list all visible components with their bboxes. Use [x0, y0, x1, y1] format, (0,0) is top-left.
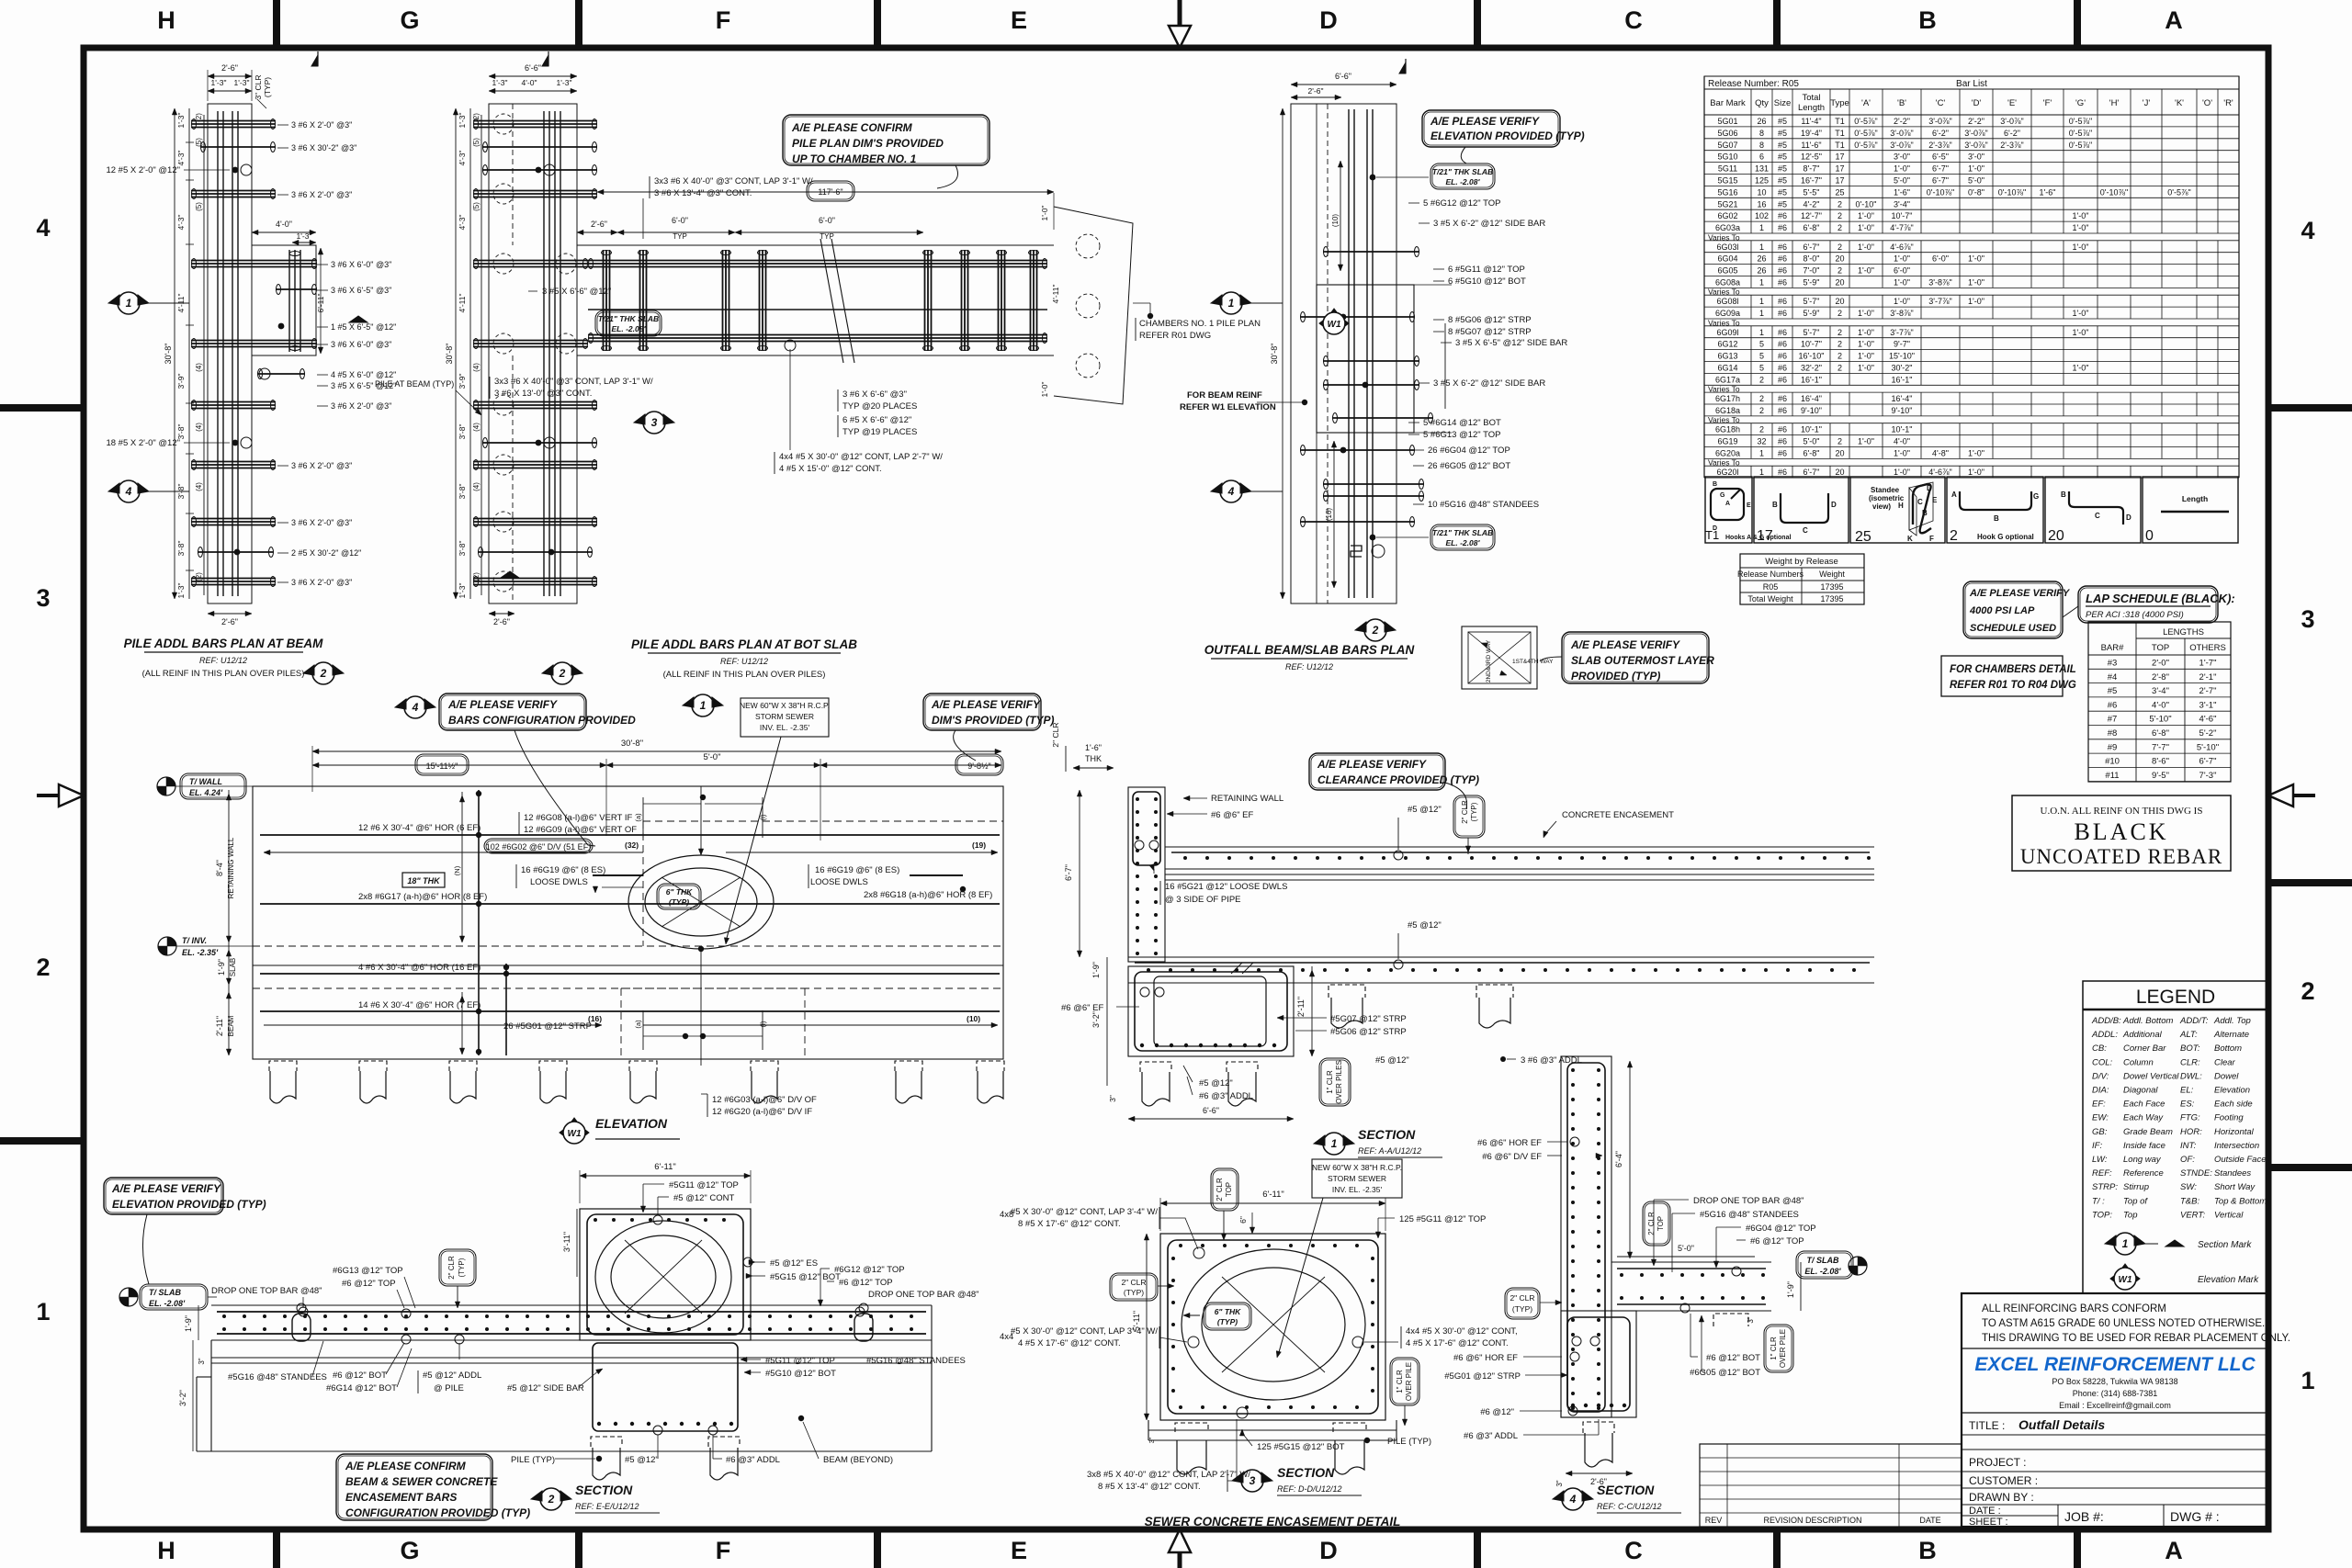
svg-text:6'-2": 6'-2"	[2004, 129, 2020, 138]
svg-text:4 #5 X 6'-0" @12": 4 #5 X 6'-0" @12"	[331, 370, 396, 379]
svg-text:8 #5 X 13'-4" @12" CONT.: 8 #5 X 13'-4" @12" CONT.	[1098, 1482, 1201, 1492]
svg-text:6 #5G10 @12" BOT: 6 #5G10 @12" BOT	[1448, 276, 1526, 287]
svg-text:3: 3	[651, 416, 658, 429]
svg-text:2: 2	[320, 667, 327, 680]
svg-text:2: 2	[559, 667, 566, 680]
svg-text:Inside face: Inside face	[2123, 1141, 2165, 1151]
svg-text:14 #6 X 30'-4" @6" HOR (7 EF): 14 #6 X 30'-4" @6" HOR (7 EF)	[358, 1000, 481, 1010]
svg-text:125: 125	[1755, 176, 1769, 186]
svg-text:4'-3": 4'-3"	[458, 151, 467, 166]
svg-text:INV. EL. -2.35': INV. EL. -2.35'	[1332, 1185, 1383, 1194]
svg-text:Top of: Top of	[2123, 1196, 2148, 1206]
svg-text:Length: Length	[2182, 494, 2208, 503]
svg-text:1: 1	[1759, 449, 1764, 458]
svg-text:1'-9": 1'-9"	[184, 1315, 193, 1332]
svg-text:4'-3": 4'-3"	[176, 215, 186, 231]
svg-text:C: C	[2095, 512, 2100, 520]
svg-text:#5: #5	[1778, 187, 1787, 197]
svg-text:Dowel Vertical: Dowel Vertical	[2123, 1071, 2179, 1081]
svg-text:#6: #6	[1778, 340, 1787, 349]
plan 2 pile addl bars plan at bot slab	[489, 104, 577, 604]
svg-text:Release Numbers: Release Numbers	[1737, 570, 1804, 579]
section1 piles	[1140, 1062, 1171, 1072]
svg-text:3": 3"	[198, 1358, 206, 1364]
svg-text:3 #6 X 6'-0" @3": 3 #6 X 6'-0" @3"	[331, 260, 391, 269]
svg-text:3 #6 X 13'-0" @3" CONT.: 3 #6 X 13'-0" @3" CONT.	[494, 389, 592, 399]
svg-text:A/E PLEASE VERIFY: A/E PLEASE VERIFY	[447, 698, 558, 711]
svg-text:6G14: 6G14	[1717, 364, 1737, 373]
svg-text:#5 @12" CONT: #5 @12" CONT	[673, 1193, 735, 1203]
svg-text:4: 4	[412, 701, 419, 714]
svg-text:30'-8": 30'-8"	[621, 739, 643, 749]
svg-text:(4): (4)	[472, 482, 481, 491]
svg-text:3x3 #6 X 40'-0" @3" CONT, LAP: 3x3 #6 X 40'-0" @3" CONT, LAP 3'-1" W/	[494, 377, 653, 387]
svg-text:'F': 'F'	[2043, 98, 2052, 108]
svg-text:4'-0": 4'-0"	[522, 78, 537, 87]
svg-text:0'-5⅞": 0'-5⅞"	[2069, 129, 2092, 138]
bar list table	[1704, 76, 2239, 89]
svg-text:2: 2	[1372, 624, 1379, 637]
svg-text:(a): (a)	[634, 1020, 642, 1029]
svg-text:ES:: ES:	[2180, 1100, 2195, 1110]
svg-text:#5: #5	[1778, 141, 1787, 150]
svg-text:2: 2	[1837, 243, 1842, 252]
svg-text:LW:: LW:	[2092, 1155, 2108, 1165]
svg-text:0'-5⅞": 0'-5⅞"	[2069, 117, 2092, 126]
svg-text:EXCEL REINFORCEMENT LLC: EXCEL REINFORCEMENT LLC	[1974, 1354, 2256, 1375]
svg-text:T/21" THK SLAB: T/21" THK SLAB	[598, 314, 659, 323]
svg-text:PILE (TYP): PILE (TYP)	[1387, 1437, 1431, 1447]
svg-text:1'-3": 1'-3"	[176, 583, 186, 599]
svg-text:4'-0": 4'-0"	[276, 220, 292, 229]
svg-text:2" CLR: 2" CLR	[1510, 1293, 1534, 1303]
section1 lower slab band	[1128, 956, 1874, 958]
svg-text:Each Way: Each Way	[2123, 1113, 2164, 1123]
svg-text:1'-3": 1'-3"	[492, 78, 508, 87]
svg-text:#6: #6	[1778, 309, 1787, 318]
svg-text:2: 2	[1759, 425, 1764, 434]
svg-text:3 #6 @3" ADDL: 3 #6 @3" ADDL	[1521, 1055, 1582, 1066]
elevation dim rows	[264, 852, 643, 853]
svg-text:2: 2	[36, 953, 50, 981]
svg-text:GB:: GB:	[2092, 1127, 2108, 1137]
svg-text:#6G13 @12" TOP: #6G13 @12" TOP	[333, 1266, 403, 1276]
svg-text:(2): (2)	[195, 113, 203, 122]
svg-text:'K': 'K'	[2175, 98, 2184, 108]
svg-text:H: H	[1898, 502, 1904, 510]
shape 20	[2069, 491, 2123, 525]
svg-text:1'-7": 1'-7"	[2199, 659, 2217, 669]
svg-text:5'-9": 5'-9"	[1804, 278, 1820, 288]
cloud clearance provided	[1309, 753, 1445, 790]
svg-text:18 #5 X 2'-0" @12": 18 #5 X 2'-0" @12"	[106, 438, 180, 448]
svg-text:FOR CHAMBERS DETAIL: FOR CHAMBERS DETAIL	[1950, 664, 2076, 675]
svg-text:BEAM: BEAM	[227, 1015, 235, 1036]
svg-text:5G10: 5G10	[1717, 152, 1737, 162]
svg-text:Total Weight: Total Weight	[1747, 594, 1793, 604]
job dwg cells	[2057, 1505, 2059, 1527]
svg-text:(19): (19)	[972, 840, 986, 850]
svg-text:(ALL REINF IN THIS PLAN OVER P: (ALL REINF IN THIS PLAN OVER PILES)	[142, 669, 305, 679]
svg-text:(TYP): (TYP)	[1217, 1317, 1238, 1326]
svg-text:ELEVATION: ELEVATION	[595, 1116, 668, 1131]
svg-text:7'-0": 7'-0"	[1804, 266, 1820, 276]
section2 lower encasement box	[593, 1343, 738, 1431]
svg-text:125 #5G15 @12" BOT: 125 #5G15 @12" BOT	[1257, 1442, 1345, 1452]
svg-text:@ PILE: @ PILE	[434, 1383, 464, 1393]
plan1 bar group	[276, 288, 317, 290]
svg-text:10'-1": 10'-1"	[1892, 425, 1913, 434]
svg-text:5'-7": 5'-7"	[1804, 297, 1820, 306]
svg-text:5G07: 5G07	[1717, 141, 1737, 150]
svg-text:CUSTOMER :: CUSTOMER :	[1969, 1474, 2038, 1487]
svg-text:16 #6G19 @6" (8 ES): 16 #6G19 @6" (8 ES)	[815, 865, 899, 875]
svg-text:C: C	[1624, 1537, 1643, 1564]
elevation horizontal bars	[260, 834, 1000, 836]
svg-text:4: 4	[1227, 485, 1235, 498]
svg-text:1: 1	[700, 699, 707, 712]
svg-text:Hook G optional: Hook G optional	[1977, 533, 2034, 541]
svg-text:B: B	[1994, 514, 1999, 523]
svg-text:6'-7": 6'-7"	[1932, 176, 1949, 186]
svg-text:12 #6G09 (a-l)@6" VERT OF: 12 #6G09 (a-l)@6" VERT OF	[524, 825, 637, 835]
svg-text:17: 17	[1757, 528, 1773, 544]
svg-text:3'-7⅞": 3'-7⅞"	[1890, 328, 1913, 337]
svg-text:1'-3": 1'-3"	[458, 583, 467, 599]
svg-text:DATE: DATE	[1919, 1516, 1940, 1525]
svg-text:6G13: 6G13	[1717, 352, 1737, 361]
plan1 top flag	[311, 55, 318, 66]
plan1 extension top dim	[252, 231, 316, 233]
svg-text:32'-2": 32'-2"	[1801, 364, 1822, 373]
svg-text:(TYP): (TYP)	[669, 897, 689, 907]
svg-text:3'-7⅞": 3'-7⅞"	[1928, 297, 1951, 306]
svg-text:Phone: (314) 688-7381: Phone: (314) 688-7381	[2073, 1389, 2158, 1398]
svg-text:#5: #5	[1778, 152, 1787, 162]
svg-text:26 #5G01 @12" STRP: 26 #5G01 @12" STRP	[503, 1021, 592, 1032]
svg-text:BEAM (BEYOND): BEAM (BEYOND)	[823, 1455, 893, 1465]
svg-text:Email : Excellreinf@gmail.com: Email : Excellreinf@gmail.com	[2059, 1401, 2171, 1410]
svg-text:3 #6 X 6'-0" @3": 3 #6 X 6'-0" @3"	[331, 340, 391, 349]
svg-text:3x3 #6 X 40'-0" @3" CONT, LAP: 3x3 #6 X 40'-0" @3" CONT, LAP 3'-1" W/	[654, 176, 813, 186]
svg-text:(10): (10)	[1331, 214, 1340, 228]
svg-text:#6: #6	[1778, 266, 1787, 276]
svg-text:117'-6": 117'-6"	[818, 187, 842, 197]
svg-text:6'-0": 6'-0"	[819, 216, 835, 225]
svg-text:6'-7": 6'-7"	[2199, 757, 2217, 767]
svg-text:Dowel: Dowel	[2214, 1071, 2239, 1081]
svg-text:Intersection: Intersection	[2214, 1141, 2259, 1151]
plan1 bar group	[257, 373, 305, 375]
svg-text:'O': 'O'	[2202, 98, 2212, 108]
svg-text:6G08l: 6G08l	[1716, 297, 1738, 306]
plan1 right callouts	[277, 124, 288, 126]
svg-text:OVER PILE: OVER PILE	[1779, 1329, 1787, 1368]
svg-text:12 #6G08 (a-l)@6" VERT IF: 12 #6G08 (a-l)@6" VERT IF	[524, 813, 632, 823]
svg-text:2: 2	[548, 1493, 555, 1506]
svg-text:5: 5	[1759, 340, 1764, 349]
svg-text:#6: #6	[1778, 352, 1787, 361]
svg-text:2'-8": 2'-8"	[2152, 672, 2169, 682]
svg-text:IF:: IF:	[2092, 1141, 2102, 1151]
svg-text:DWL:: DWL:	[2180, 1071, 2202, 1081]
svg-text:6G02: 6G02	[1717, 211, 1737, 220]
svg-text:6G09l: 6G09l	[1716, 328, 1738, 337]
svg-text:EL:: EL:	[2180, 1086, 2194, 1096]
svg-text:17: 17	[1835, 176, 1844, 186]
svg-text:1'-3": 1'-3"	[297, 231, 312, 241]
plan3 standee symbol	[1351, 546, 1362, 557]
svg-text:0'-5⅞": 0'-5⅞"	[1854, 141, 1877, 150]
svg-text:3'-4": 3'-4"	[1894, 199, 1910, 209]
svg-text:B: B	[1918, 6, 1937, 34]
svg-text:2'-6": 2'-6"	[493, 617, 510, 626]
102 6G02 cloud	[484, 839, 593, 853]
svg-text:26 #6G05 @12" BOT: 26 #6G05 @12" BOT	[1428, 461, 1510, 471]
svg-text:INT:: INT:	[2180, 1141, 2197, 1151]
svg-text:Bottom: Bottom	[2214, 1043, 2242, 1054]
svg-text:Top & Bottom: Top & Bottom	[2214, 1196, 2267, 1206]
section 2 beam elevation	[211, 1304, 932, 1306]
plan 3 outfall beam slab bars plan	[1291, 104, 1396, 604]
svg-text:#6 @6" HOR EF: #6 @6" HOR EF	[1453, 1353, 1518, 1363]
svg-text:6'-7": 6'-7"	[1804, 468, 1820, 477]
svg-text:LAP SCHEDULE (BLACK):: LAP SCHEDULE (BLACK):	[2086, 592, 2235, 605]
svg-text:H: H	[157, 6, 175, 34]
elevation top dims	[312, 750, 1001, 752]
svg-text:3 #6 X 6'-5" @3": 3 #6 X 6'-5" @3"	[331, 286, 391, 295]
svg-text:A/E PLEASE VERIFY: A/E PLEASE VERIFY	[1570, 638, 1680, 651]
svg-text:0'-5⅞": 0'-5⅞"	[2069, 141, 2092, 150]
svg-text:Qty: Qty	[1755, 98, 1769, 108]
svg-text:6G08a: 6G08a	[1715, 278, 1740, 288]
svg-text:A: A	[2165, 1537, 2183, 1564]
for chambers detail box	[1941, 656, 2063, 696]
svg-text:TYP: TYP	[673, 232, 687, 241]
svg-text:T/ WALL: T/ WALL	[189, 777, 222, 786]
svg-text:D: D	[1831, 501, 1837, 509]
svg-text:16'-7": 16'-7"	[1801, 176, 1822, 186]
svg-text:'C': 'C'	[1936, 98, 1946, 108]
svg-text:#5G11 @12" TOP: #5G11 @12" TOP	[669, 1180, 739, 1190]
svg-text:Total: Total	[1802, 93, 1820, 103]
svg-text:Footing: Footing	[2214, 1113, 2244, 1123]
arm vertical bar groups	[603, 250, 605, 351]
svg-text:6G03l: 6G03l	[1716, 243, 1738, 252]
slab layer detail square	[1462, 626, 1537, 689]
svg-text:G: G	[400, 6, 419, 34]
svg-text:#5G16 @48" STANDEES: #5G16 @48" STANDEES	[228, 1372, 327, 1382]
svg-text:Section Mark: Section Mark	[2198, 1240, 2252, 1250]
plan2 section3 marker	[634, 414, 645, 424]
section3 dims	[1160, 1202, 1385, 1204]
svg-text:2x8 #6G18 (a-h)@6" HOR (8 EF): 2x8 #6G18 (a-h)@6" HOR (8 EF)	[864, 890, 992, 900]
svg-text:1'-0": 1'-0"	[2073, 211, 2089, 220]
svg-text:(32): (32)	[625, 840, 639, 850]
svg-text:OUTFALL BEAM/SLAB BARS PLAN: OUTFALL BEAM/SLAB BARS PLAN	[1204, 643, 1415, 657]
svg-text:#6: #6	[2108, 700, 2118, 710]
svg-text:2: 2	[1837, 437, 1842, 446]
svg-text:B: B	[1772, 501, 1778, 509]
svg-text:1'-0": 1'-0"	[1858, 266, 1874, 276]
svg-text:20: 20	[1835, 468, 1844, 477]
svg-text:16'-4": 16'-4"	[1892, 394, 1913, 403]
svg-text:4'-11": 4'-11"	[458, 293, 467, 312]
svg-text:8 #5G06 @12" STRP: 8 #5G06 @12" STRP	[1448, 315, 1532, 325]
plan2 bar group	[473, 461, 597, 463]
svg-text:FOR BEAM REINF: FOR BEAM REINF	[1187, 390, 1262, 400]
plan2 bar group	[473, 578, 597, 580]
svg-text:#6 @12": #6 @12"	[1480, 1407, 1514, 1417]
svg-text:#6 @6" EF: #6 @6" EF	[1211, 810, 1253, 820]
svg-text:1'-0": 1'-0"	[1894, 164, 1910, 174]
svg-text:T1: T1	[1835, 129, 1845, 138]
svg-text:1: 1	[36, 1298, 50, 1325]
svg-text:1'-0": 1'-0"	[1858, 352, 1874, 361]
svg-text:2" CLR: 2" CLR	[1647, 1212, 1656, 1235]
storm sewer box sec3	[1312, 1159, 1402, 1198]
svg-text:LOOSE DWLS: LOOSE DWLS	[810, 877, 868, 887]
svg-text:16'-1": 16'-1"	[1892, 375, 1913, 384]
svg-text:(4): (4)	[195, 363, 203, 372]
svg-text:#6 @3" ADDL: #6 @3" ADDL	[1464, 1431, 1518, 1441]
svg-text:Short Way: Short Way	[2214, 1182, 2256, 1192]
svg-text:2'-3⅞": 2'-3⅞"	[2000, 141, 2023, 150]
svg-text:EL. -2.08': EL. -2.08'	[149, 1299, 186, 1308]
svg-text:EL. -2.08': EL. -2.08'	[1446, 538, 1481, 547]
svg-text:1'-3": 1'-3"	[557, 78, 572, 87]
svg-text:B: B	[1918, 1537, 1937, 1564]
svg-text:2: 2	[1837, 309, 1842, 318]
elevation vert dim line	[461, 792, 463, 942]
svg-text:3": 3"	[1555, 1480, 1564, 1486]
svg-text:5 #6G14 @12" BOT: 5 #6G14 @12" BOT	[1423, 418, 1501, 428]
t slab cloud sec2	[119, 1288, 138, 1306]
elevation piles	[269, 1061, 297, 1071]
svg-text:5: 5	[1759, 364, 1764, 373]
svg-text:0'-5⅞": 0'-5⅞"	[1854, 117, 1877, 126]
svg-text:TYP @20 PLACES: TYP @20 PLACES	[842, 401, 917, 412]
svg-text:DATE :: DATE :	[1969, 1506, 2001, 1517]
svg-text:3 #6 X 2'-0" @3": 3 #6 X 2'-0" @3"	[331, 401, 391, 411]
svg-text:#5G16 @48" STANDEES: #5G16 @48" STANDEES	[866, 1356, 966, 1366]
svg-text:1'-0": 1'-0"	[2073, 364, 2089, 373]
svg-text:0'-8": 0'-8"	[1968, 187, 1984, 197]
black uncoated rebar box	[2012, 795, 2231, 871]
svg-text:10'-1": 10'-1"	[1801, 425, 1822, 434]
svg-text:0'-10⅞": 0'-10⅞"	[2100, 187, 2128, 197]
title block	[1962, 1293, 2269, 1527]
svg-text:32: 32	[1757, 437, 1766, 446]
svg-text:2'-0": 2'-0"	[2152, 659, 2169, 669]
svg-text:4: 4	[36, 214, 50, 242]
svg-text:DWG # :: DWG # :	[2170, 1509, 2220, 1524]
svg-text:4 #5 X 17'-6" @12" CONT.: 4 #5 X 17'-6" @12" CONT.	[1406, 1338, 1509, 1348]
plan3 vert dim arrows inside	[1340, 161, 1341, 271]
svg-text:4: 4	[125, 485, 132, 498]
svg-text:Size: Size	[1774, 98, 1791, 108]
plan1 bar group	[200, 146, 276, 148]
svg-text:R05: R05	[1763, 582, 1779, 592]
svg-text:11'-6": 11'-6"	[1801, 141, 1821, 150]
svg-text:@ 3 SIDE OF PIPE: @ 3 SIDE OF PIPE	[1165, 895, 1241, 905]
plan3 marker2 bottom	[1355, 622, 1366, 632]
svg-text:2" CLR: 2" CLR	[1051, 722, 1060, 747]
svg-text:2: 2	[1759, 406, 1764, 415]
section2 dims	[580, 1175, 751, 1177]
svg-text:STORM SEWER: STORM SEWER	[1328, 1174, 1386, 1183]
svg-text:T/ INV.: T/ INV.	[182, 936, 207, 945]
svg-text:Long way: Long way	[2123, 1155, 2162, 1165]
svg-text:(a): (a)	[634, 813, 642, 822]
svg-text:VERT:: VERT:	[2180, 1210, 2205, 1220]
plan2 bar group	[473, 340, 588, 342]
svg-text:#5 X 30'-0" @12" CONT, LAP 3'-: #5 X 30'-0" @12" CONT, LAP 3'-4" W/	[1011, 1326, 1158, 1337]
svg-text:8'-0": 8'-0"	[1804, 254, 1820, 264]
svg-text:Top: Top	[2123, 1210, 2138, 1220]
svg-text:OF:: OF:	[2180, 1155, 2195, 1165]
svg-text:#5 X 30'-0" @12" CONT, LAP 3'-: #5 X 30'-0" @12" CONT, LAP 3'-4" W/	[1011, 1207, 1158, 1217]
svg-text:6'-11": 6'-11"	[654, 1162, 676, 1172]
svg-text:1: 1	[1759, 278, 1764, 288]
svg-text:5'-0": 5'-0"	[1894, 176, 1910, 186]
svg-text:4'-0": 4'-0"	[2152, 700, 2169, 710]
svg-text:1'-0": 1'-0"	[1894, 297, 1910, 306]
svg-text:Each side: Each side	[2214, 1100, 2253, 1110]
svg-text:10 #5G16 @48" STANDEES: 10 #5G16 @48" STANDEES	[1428, 500, 1539, 510]
plan1 marker2 bottom	[303, 665, 314, 675]
svg-text:3'-2": 3'-2"	[1091, 1011, 1101, 1028]
svg-text:5'-10": 5'-10"	[2149, 715, 2171, 725]
svg-text:E: E	[1011, 6, 1027, 34]
section mark legend symbol	[2105, 1235, 2116, 1246]
plan3 bar groups	[1323, 251, 1419, 253]
t/inv symbol	[158, 937, 176, 955]
plan1 bar group	[191, 518, 276, 520]
svg-text:4x4 #5 X 30'-0" @12" CONT,: 4x4 #5 X 30'-0" @12" CONT,	[1406, 1326, 1518, 1337]
svg-text:#7: #7	[2108, 715, 2118, 725]
bar shape diagrams	[1705, 477, 1752, 543]
svg-text:#6 @3" ADDL: #6 @3" ADDL	[726, 1455, 780, 1465]
section1 encasement lines	[1165, 874, 1874, 875]
svg-text:6'-11": 6'-11"	[1262, 1190, 1284, 1200]
18 thk box	[402, 873, 445, 887]
plan1 bar group	[191, 190, 276, 192]
plan1 bar group	[191, 461, 276, 463]
svg-text:Elevation Mark: Elevation Mark	[2198, 1275, 2259, 1285]
svg-text:5 #6G13 @12" TOP: 5 #6G13 @12" TOP	[1423, 430, 1501, 440]
svg-text:16'-4": 16'-4"	[1801, 394, 1822, 403]
svg-text:#5G10 @12" BOT: #5G10 @12" BOT	[765, 1369, 836, 1379]
svg-text:Additional: Additional	[2122, 1030, 2163, 1040]
svg-text:3'-2": 3'-2"	[178, 1390, 187, 1406]
svg-text:#4: #4	[2108, 672, 2118, 682]
svg-text:1: 1	[1759, 309, 1764, 318]
svg-text:#6: #6	[1778, 278, 1787, 288]
svg-text:3'-8⅞": 3'-8⅞"	[1890, 309, 1913, 318]
svg-text:SCHEDULE USED: SCHEDULE USED	[1970, 623, 2056, 634]
svg-text:25: 25	[1835, 187, 1844, 197]
svg-text:UP TO CHAMBER NO. 1: UP TO CHAMBER NO. 1	[792, 152, 917, 165]
plan2 bottom dim	[489, 613, 514, 615]
svg-text:3'-0⅞": 3'-0⅞"	[1928, 117, 1951, 126]
section1 title	[1314, 1135, 1325, 1145]
svg-text:#10: #10	[2105, 757, 2120, 767]
svg-text:6'-6": 6'-6"	[1335, 72, 1351, 81]
plan2 marker2 bottom	[542, 665, 553, 675]
svg-text:#5G07 @12" STRP: #5G07 @12" STRP	[1330, 1014, 1407, 1024]
plan2 bar group	[473, 401, 597, 403]
